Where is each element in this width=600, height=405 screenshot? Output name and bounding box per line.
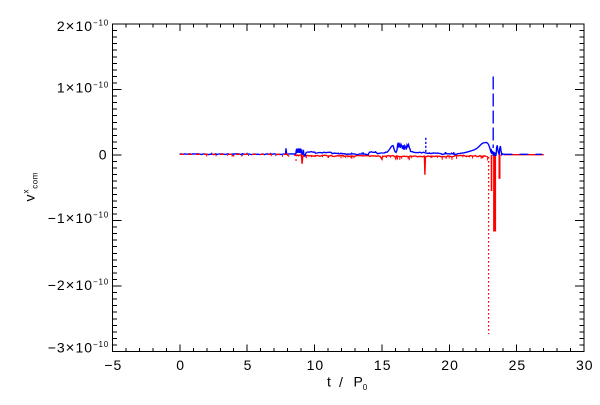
svg-text:−5: −5 bbox=[104, 357, 122, 373]
x axis title: t / P0 bbox=[327, 374, 368, 393]
svg-text:5: 5 bbox=[244, 357, 253, 373]
svg-text:0: 0 bbox=[99, 147, 108, 163]
svg-text:30: 30 bbox=[576, 357, 594, 373]
svg-text:10: 10 bbox=[307, 357, 325, 373]
axis tick marks bbox=[112, 345, 114, 352]
plot frame box bbox=[113, 24, 585, 352]
svg-text:0: 0 bbox=[176, 357, 185, 373]
svg-text:20: 20 bbox=[441, 357, 459, 373]
svg-text:25: 25 bbox=[509, 357, 527, 373]
svg-text:t: t bbox=[327, 374, 332, 390]
svg-text:15: 15 bbox=[374, 357, 392, 373]
svg-text:0: 0 bbox=[363, 383, 368, 392]
svg-text:/: / bbox=[339, 374, 344, 390]
data curves bbox=[294, 155, 487, 175]
